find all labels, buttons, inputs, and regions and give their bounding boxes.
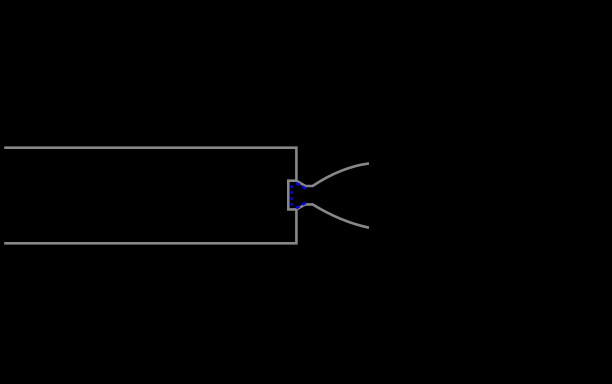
- blue dashed vertical line (injector face): [291, 185, 294, 205]
- blue dashed lower converging line: [296, 203, 306, 208]
- nozzle inlet bracket (injector recess): [288, 181, 296, 210]
- nozzle lower wall: converging, throat, diverging bell: [296, 204, 369, 227]
- blue dashed upper converging line: [296, 183, 306, 189]
- combustion chamber wall (top, right, bottom): [4, 148, 296, 244]
- nozzle upper wall: converging, throat, diverging bell: [296, 163, 369, 186]
